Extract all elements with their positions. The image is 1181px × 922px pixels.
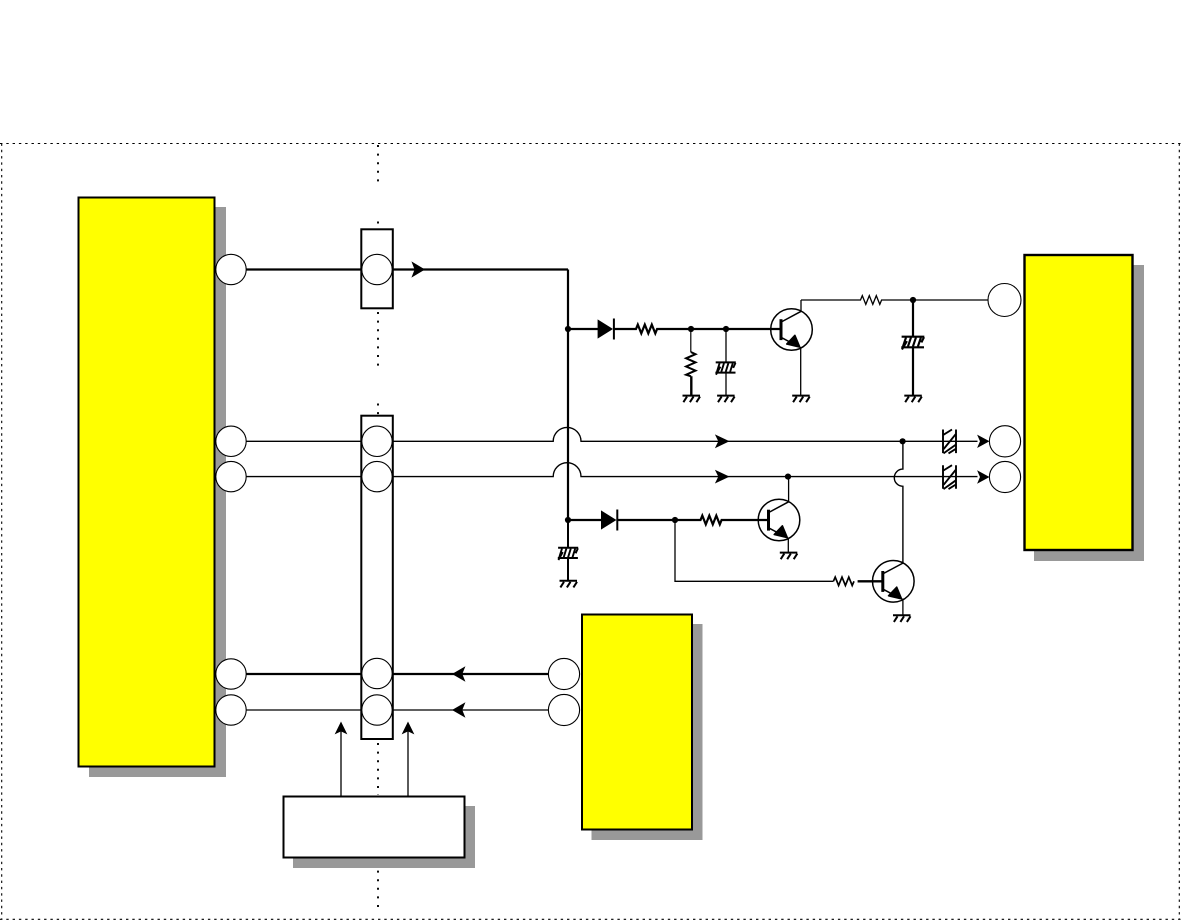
- shadow of control box: [293, 806, 475, 868]
- resistor R3: [801, 296, 989, 305]
- wire W1: [246, 268, 568, 270]
- vertical dotted divider: [377, 145, 379, 912]
- wire: Q2 collector to node F: [788, 477, 790, 502]
- arrow on W2: [715, 434, 730, 448]
- ground G5: [780, 553, 798, 560]
- shadow of IC block U3: [592, 624, 703, 840]
- pin circle P8: [989, 461, 1020, 492]
- connector J2 circle a: [362, 426, 392, 456]
- wire: node A to diode D1: [568, 328, 599, 330]
- connector J2 circle c: [362, 658, 392, 688]
- capacitor C1: [715, 362, 735, 374]
- connector J2 circle d: [362, 695, 392, 725]
- capacitor C3: [558, 548, 578, 560]
- ground G6: [560, 581, 578, 588]
- node B junction dot: [688, 326, 694, 332]
- resistor R5: [833, 577, 882, 585]
- pin circle P1: [216, 254, 246, 284]
- pin circle P9: [548, 658, 579, 689]
- transistor Q2: [758, 499, 800, 541]
- wire W2: [246, 427, 978, 441]
- ground G7: [893, 615, 911, 622]
- IC block U1 (left): [79, 198, 215, 767]
- control arrow 1: [335, 722, 348, 797]
- transistor Q1: [771, 309, 813, 351]
- pin circle P3: [216, 461, 246, 491]
- ground G2: [717, 396, 735, 403]
- wire W4: [246, 673, 549, 675]
- capacitor C2 leads: [912, 300, 914, 395]
- wire W5: [246, 709, 549, 711]
- wire: Q3 emitter to ground: [902, 599, 904, 616]
- wire: Q2 emitter to ground: [787, 538, 789, 553]
- pin circle P10: [548, 694, 579, 725]
- shadow of IC block U2: [1034, 265, 1144, 561]
- IC block U3 (bottom middle): [582, 615, 692, 830]
- shadow of IC block U1: [89, 207, 226, 777]
- control box: [284, 797, 465, 858]
- connector J1 circle: [362, 254, 392, 284]
- capacitor C3 leads: [567, 520, 569, 581]
- arrow to P8: [977, 470, 989, 483]
- wire W3: [246, 463, 978, 477]
- connector box J2: [361, 416, 393, 739]
- node A junction dot: [565, 326, 571, 332]
- wire: Q1 collector: [800, 300, 802, 312]
- resistor R4: [617, 516, 768, 525]
- node C junction dot: [723, 326, 729, 332]
- pin circle P4: [216, 659, 246, 689]
- transistor Q3: [873, 561, 915, 603]
- capacitor C1 lead: [725, 329, 727, 395]
- ground G1: [683, 396, 701, 403]
- wire: node H to diode D2: [568, 519, 601, 521]
- resistor R1: [614, 325, 781, 334]
- wire: vertical bus from W1: [567, 270, 569, 521]
- arrow on W5 (left): [452, 702, 465, 718]
- ferrite bead FB2: [943, 465, 956, 489]
- pin circle P5: [216, 695, 246, 725]
- ferrite bead FB1: [943, 430, 956, 454]
- capacitor C2: [901, 337, 924, 350]
- connector box J1: [361, 229, 393, 308]
- arrow on W1: [411, 261, 425, 277]
- connector J2 circle b: [362, 461, 392, 491]
- node F junction dot: [785, 474, 791, 480]
- IC block U2 (right): [1025, 255, 1133, 550]
- wire: node E down and right: [675, 520, 833, 581]
- pin circle P2: [216, 426, 246, 456]
- arrow on W3: [715, 470, 730, 484]
- pin circle P6: [988, 284, 1021, 317]
- node E junction dot: [672, 517, 678, 523]
- ground G3: [792, 396, 810, 403]
- node G junction dot: [900, 438, 906, 444]
- node H junction dot: [565, 517, 571, 523]
- arrow on W4 (left): [452, 666, 465, 682]
- node D junction dot: [910, 297, 916, 303]
- arrow to P7: [977, 435, 989, 448]
- resistor R2: [686, 329, 695, 395]
- wire: Q3 collector up with hop over W3: [894, 441, 903, 563]
- diode D2: [602, 510, 618, 531]
- control arrow 2: [402, 722, 415, 797]
- wire: Q1 emitter to ground: [800, 347, 802, 395]
- pin circle P7: [989, 426, 1020, 457]
- diode D1: [598, 319, 614, 340]
- ground G4: [904, 396, 922, 403]
